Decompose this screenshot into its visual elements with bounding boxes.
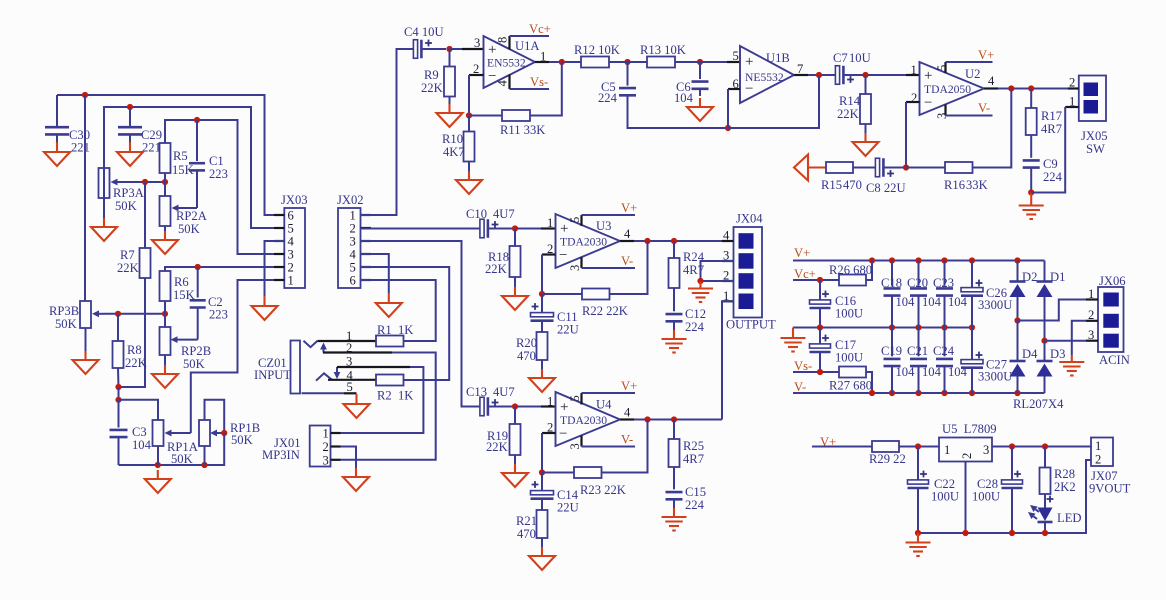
pin 5 rail V+ [582, 201, 638, 226]
svg-text:D2: D2 [1022, 270, 1037, 284]
svg-text:5: 5 [568, 217, 582, 223]
svg-text:50K: 50K [231, 433, 253, 447]
junction [201, 462, 207, 468]
svg-text:R5: R5 [173, 149, 188, 163]
capacitor C12 [666, 288, 707, 334]
jack switch arrow pin 2 [320, 343, 327, 353]
svg-text:R11 33K: R11 33K [500, 123, 545, 137]
LED [1038, 494, 1082, 533]
svg-text:22K: 22K [421, 81, 443, 95]
pin 3 rail V- [582, 254, 636, 268]
wire net top to JX03 pin 6 [57, 95, 284, 215]
resistor R11 feedback [469, 62, 562, 137]
svg-text:1: 1 [944, 443, 950, 457]
junction [539, 291, 545, 297]
svg-text:10U: 10U [849, 51, 871, 65]
capacitor C22 [908, 447, 960, 534]
svg-text:100U: 100U [835, 351, 863, 365]
junction [1008, 85, 1014, 91]
junction [915, 390, 921, 396]
wire net 2 to JX03 pin 5 [104, 107, 284, 228]
svg-text:4: 4 [288, 235, 295, 249]
net label V+ [820, 435, 836, 449]
svg-text:TDA2030: TDA2030 [560, 414, 607, 427]
capacitor C6 [674, 62, 709, 105]
capacitor C17 [810, 328, 864, 373]
svg-text:+: + [745, 54, 753, 70]
ground [117, 142, 143, 166]
svg-text:223: 223 [209, 308, 228, 322]
svg-text:R2 1K: R2 1K [377, 389, 413, 403]
svg-text:3: 3 [568, 265, 582, 271]
ground [853, 124, 879, 156]
junction [624, 59, 630, 65]
wire RP1A wiper to JX03 pin 1 [191, 280, 284, 433]
wire RP1B bottom [204, 446, 206, 465]
svg-text:+: + [924, 68, 932, 84]
svg-text:4U7: 4U7 [493, 207, 515, 221]
resistor R8 [113, 314, 147, 387]
connector JX02 [337, 193, 364, 288]
resistor R21 [516, 510, 548, 541]
junction [969, 390, 975, 396]
svg-text:50K: 50K [171, 452, 193, 466]
junction [155, 462, 161, 468]
wire JX04 pin 2 stub [701, 280, 734, 282]
wire bottom rail of input pots [119, 433, 225, 465]
svg-text:C7: C7 [833, 51, 848, 65]
ground [252, 296, 278, 320]
wire jack pin 3 to JX01 pin 1 [337, 367, 423, 433]
svg-text:6: 6 [350, 274, 356, 288]
junction [1009, 443, 1015, 449]
svg-text:U1B: U1B [766, 51, 790, 65]
svg-text:1: 1 [288, 274, 294, 288]
capacitor C27 [961, 328, 1012, 394]
svg-text:1: 1 [547, 395, 553, 409]
label RL207X4 [1013, 397, 1064, 411]
capacitor C4 [404, 25, 446, 58]
junction [115, 397, 121, 403]
wire JX02 pin 4 to ground [361, 254, 389, 293]
wire U1B pin 6 feedback [728, 89, 740, 128]
svg-text:RP3A: RP3A [113, 186, 144, 200]
svg-text:104: 104 [948, 295, 968, 309]
svg-text:C10: C10 [466, 207, 487, 221]
resistor R6 [160, 271, 195, 302]
ground [1019, 193, 1044, 220]
resistor R27 [829, 367, 872, 394]
resistor R13 [640, 43, 686, 68]
svg-text:50K: 50K [115, 199, 137, 213]
pin 8 rail Vc+ [510, 22, 551, 50]
wire jack pin 4 to R2 [328, 379, 376, 381]
potentiometer RP3A [99, 168, 144, 213]
junction [1014, 257, 1020, 263]
pin 3 rail V- [582, 433, 636, 447]
wire junction row 2 [104, 313, 165, 315]
pin stubs JX04 [722, 241, 734, 301]
LED light arrows [1028, 505, 1039, 519]
svg-text:LED: LED [1057, 511, 1081, 525]
svg-text:R20: R20 [516, 336, 537, 350]
jack switch arrow pin 4 [334, 367, 341, 379]
connector JX03 [281, 193, 308, 288]
ground [343, 468, 369, 491]
svg-text:R23 22K: R23 22K [580, 483, 626, 497]
wire U5 pin 2 [965, 462, 967, 534]
junction [869, 257, 875, 263]
svg-text:R25: R25 [683, 439, 704, 453]
pin 5 rail V+ [582, 379, 638, 405]
svg-text:R29 22: R29 22 [869, 452, 906, 466]
svg-text:3: 3 [288, 248, 294, 262]
junction [915, 257, 921, 263]
svg-text:R28: R28 [1054, 467, 1075, 481]
svg-text:R22 22K: R22 22K [582, 304, 628, 318]
svg-text:2K2: 2K2 [1054, 480, 1076, 494]
svg-text:2: 2 [960, 453, 974, 459]
svg-text:C4 10U: C4 10U [404, 25, 444, 39]
svg-text:V+: V+ [978, 48, 994, 62]
resistor R17 [1026, 89, 1062, 137]
svg-text:−: − [559, 426, 567, 442]
resistor R14 [837, 75, 871, 124]
svg-text:−: − [924, 95, 932, 111]
svg-text:Vc+: Vc+ [794, 267, 816, 281]
ground [502, 277, 528, 310]
connector CZ01 INPUT jack [254, 329, 354, 394]
svg-text:C18: C18 [881, 276, 902, 290]
wire U1A pin 2 [469, 75, 484, 116]
svg-text:224: 224 [685, 320, 705, 334]
svg-text:2: 2 [323, 440, 329, 454]
svg-text:224: 224 [1043, 170, 1063, 184]
junction [1028, 85, 1034, 91]
wire jack pin 5 to ground [302, 392, 357, 394]
svg-text:R17: R17 [1041, 109, 1062, 123]
capacitor C1 [181, 120, 228, 208]
junction [889, 324, 895, 330]
svg-text:22K: 22K [485, 262, 507, 276]
diode D1 [1037, 261, 1066, 341]
wire U4 output [620, 418, 722, 420]
wire JX04 pin 1 to U4 output [722, 301, 734, 419]
svg-text:33K: 33K [966, 178, 988, 192]
svg-text:C23: C23 [933, 276, 954, 290]
svg-text:221: 221 [142, 141, 161, 155]
svg-text:−: − [559, 248, 567, 264]
svg-text:5: 5 [350, 261, 356, 275]
potentiometer RP1B [199, 420, 260, 447]
svg-text:1: 1 [323, 427, 329, 441]
junction [1042, 443, 1048, 449]
svg-text:50K: 50K [183, 357, 205, 371]
connector JX01 MP3IN [262, 426, 331, 468]
wire jack pin 2 to JX01 pin 3 [323, 353, 436, 460]
junction [466, 112, 472, 118]
svg-text:4: 4 [496, 80, 510, 87]
wire jack pin 1 to R1 [318, 340, 377, 342]
svg-text:1: 1 [547, 216, 553, 230]
junction [512, 403, 518, 409]
wire D2 node to JX06 pin 1 [1018, 300, 1087, 321]
svg-text:C8 22U: C8 22U [866, 181, 906, 195]
junction [512, 225, 518, 231]
capacitor C7 [833, 51, 906, 84]
resistor R18 [485, 229, 521, 278]
ground [687, 98, 713, 121]
svg-text:224: 224 [598, 91, 618, 105]
svg-text:RL207X4: RL207X4 [1013, 397, 1064, 411]
capacitor C9 [1023, 135, 1063, 193]
junction [221, 430, 227, 436]
ground [502, 455, 528, 487]
jack tip contact [304, 341, 318, 347]
resistor R23 feedback [542, 420, 648, 498]
wire junction row 1 [120, 181, 165, 183]
wire JX02 pin 2 to C10 [361, 228, 481, 230]
wire R13 to U1B pin 5 [675, 61, 740, 63]
junction [915, 530, 921, 536]
svg-text:224: 224 [685, 498, 705, 512]
junction [697, 278, 703, 284]
svg-text:V-: V- [978, 101, 990, 115]
net label Vc+ [794, 267, 816, 281]
junction [817, 369, 823, 375]
svg-text:U5 L7809: U5 L7809 [942, 422, 997, 436]
ground [344, 394, 370, 418]
resistor R5 [160, 143, 194, 177]
jack ring contact [316, 373, 332, 380]
junction [115, 311, 121, 317]
svg-text:R8: R8 [127, 343, 142, 357]
capacitor C19 [881, 328, 915, 394]
wire RP1A bottom [157, 446, 159, 465]
svg-text:RP2A: RP2A [176, 209, 207, 223]
wire JX02 pin 6 to R1 [361, 280, 436, 341]
connector JX05 SW [1069, 76, 1108, 157]
svg-text:1: 1 [911, 63, 917, 77]
resistor R16 [906, 89, 1011, 193]
svg-text:JX02: JX02 [337, 193, 364, 207]
svg-text:RP3B: RP3B [49, 304, 79, 318]
op-amp U3 [547, 214, 631, 271]
wire JX03 pin2 net [165, 267, 284, 271]
junction [115, 384, 121, 390]
svg-text:221: 221 [71, 141, 90, 155]
svg-text:U3: U3 [596, 219, 611, 233]
svg-text:C20: C20 [907, 276, 928, 290]
svg-text:22K: 22K [125, 356, 147, 370]
junction [142, 179, 148, 185]
svg-text:4: 4 [350, 248, 357, 262]
svg-text:R6: R6 [174, 275, 189, 289]
junction [82, 92, 88, 98]
svg-text:V+: V+ [621, 379, 637, 393]
resistor R20 [516, 332, 548, 363]
svg-text:22K: 22K [486, 440, 508, 454]
svg-text:3300U: 3300U [978, 370, 1012, 384]
svg-text:C21: C21 [907, 344, 928, 358]
ground [906, 533, 931, 556]
svg-text:223: 223 [209, 167, 228, 181]
svg-text:470: 470 [843, 178, 862, 192]
ground [529, 360, 555, 392]
connector JX06 ACIN [1088, 274, 1130, 367]
wire U1B output [794, 74, 835, 76]
wire JX04 pin 3 to ground node [701, 261, 734, 281]
junction [816, 72, 822, 78]
pin stubs JX03 [274, 215, 284, 280]
junction [817, 324, 823, 330]
svg-text:R13 10K: R13 10K [640, 43, 686, 57]
capacitor C5 [598, 62, 728, 128]
capacitor C29 [118, 107, 162, 155]
svg-text:U4: U4 [596, 398, 612, 412]
wire U4 pin 2 [542, 433, 556, 473]
resistor R10 [442, 116, 475, 162]
junction [195, 264, 201, 270]
capacitor C28 [972, 447, 1023, 534]
junction [817, 277, 823, 283]
capacitor C8 [853, 158, 906, 195]
capacitor C21 [907, 328, 942, 394]
svg-text:4R7: 4R7 [1041, 122, 1062, 136]
svg-text:OUTPUT: OUTPUT [726, 318, 776, 332]
junction [915, 443, 921, 449]
wire U5 output [992, 446, 1091, 448]
pin 5 rail V+ [946, 48, 995, 73]
svg-text:5: 5 [733, 49, 739, 63]
junction [194, 117, 200, 123]
junction [1028, 189, 1034, 195]
resistor R22 feedback [542, 241, 648, 318]
junction [862, 72, 868, 78]
ground [376, 293, 402, 317]
pin 3 rail V- [946, 101, 993, 116]
pin stubs JX02 [361, 215, 372, 280]
junction [725, 125, 731, 131]
wire bottom rail to JX07 pin 2 [918, 460, 1091, 533]
wire V- rail [793, 392, 1045, 394]
svg-text:4: 4 [988, 74, 995, 88]
svg-text:104: 104 [674, 91, 694, 105]
junction [162, 311, 168, 317]
wire 0V mid rail [793, 327, 972, 329]
wire D1 node to JX06 pin 3 [1045, 340, 1087, 342]
wire R8 node to input bus [118, 387, 120, 400]
svg-text:2: 2 [288, 261, 294, 275]
svg-text:V+: V+ [794, 246, 810, 260]
svg-text:1: 1 [1095, 439, 1101, 453]
junction [539, 469, 545, 475]
junction [969, 324, 975, 330]
junction [889, 257, 895, 263]
svg-text:C12: C12 [685, 307, 706, 321]
svg-text:22U: 22U [557, 501, 579, 515]
wire to U3 pin 1 [541, 227, 556, 229]
junction [962, 530, 968, 536]
capacitor C10 [466, 207, 541, 238]
svg-text:4: 4 [624, 406, 631, 420]
wire RP1B top loop [205, 400, 225, 433]
svg-text:JX05: JX05 [1081, 129, 1108, 143]
svg-text:INPUT: INPUT [254, 368, 291, 382]
wire Vc+ rail [793, 279, 839, 281]
svg-text:JX06: JX06 [1099, 274, 1126, 288]
junction [869, 390, 875, 396]
svg-text:C13: C13 [466, 385, 487, 399]
ground [456, 162, 482, 195]
svg-text:4U7: 4U7 [493, 385, 515, 399]
connector JX07 9VOUT [1089, 438, 1131, 496]
wire to U2 pin 1 [906, 74, 920, 76]
svg-text:D1: D1 [1050, 270, 1065, 284]
resistor R12 [574, 43, 620, 68]
wire U1A output [535, 61, 581, 63]
diode D4 [1010, 321, 1039, 394]
svg-text:C15: C15 [685, 485, 706, 499]
wire R29 to U5 [899, 446, 939, 448]
op-amp U4 [547, 392, 631, 450]
resistor R9 [421, 49, 455, 97]
wire feedback to output [728, 75, 819, 128]
svg-text:C3: C3 [132, 425, 147, 439]
potentiometer RP2A [160, 173, 207, 236]
wire R12 to R13 [609, 61, 647, 63]
capacitor C20 [907, 261, 942, 328]
wire V+ to R29 [812, 446, 872, 448]
capacitor C14 [531, 473, 579, 515]
potentiometer RP2B [160, 301, 212, 371]
svg-text:R7: R7 [120, 248, 135, 262]
wire U2 output [984, 87, 1079, 89]
wire U3 output [620, 240, 733, 242]
potentiometer RP1A [153, 420, 198, 466]
svg-text:ACIN: ACIN [1099, 353, 1130, 367]
wire U3 pin 2 [542, 255, 556, 295]
svg-text:SW: SW [1086, 142, 1105, 156]
svg-text:V+: V+ [621, 201, 637, 215]
junction [915, 324, 921, 330]
resistor R19 [486, 407, 521, 456]
svg-text:5: 5 [935, 65, 949, 71]
capacitor C30 [45, 95, 90, 155]
svg-text:V-: V- [621, 254, 633, 268]
junction [127, 104, 133, 110]
ground [73, 328, 99, 374]
svg-text:Vs-: Vs- [530, 75, 548, 89]
junction [1014, 317, 1020, 323]
svg-text:3300U: 3300U [978, 298, 1012, 312]
svg-text:4: 4 [624, 227, 631, 241]
svg-text:R10: R10 [442, 132, 463, 146]
svg-text:V-: V- [794, 380, 806, 394]
svg-text:U2: U2 [965, 67, 980, 81]
resistor R15 [821, 162, 862, 192]
junction [446, 46, 452, 52]
connector JX04 OUTPUT [723, 212, 776, 332]
svg-text:22K: 22K [837, 107, 859, 121]
svg-text:4K7: 4K7 [443, 145, 465, 159]
svg-text:Vs-: Vs- [794, 359, 812, 373]
wire Vs- rail [793, 371, 839, 373]
capacitor C16 [810, 280, 864, 328]
junction [969, 257, 975, 263]
ground [662, 330, 687, 353]
svg-text:TDA2030: TDA2030 [560, 236, 607, 249]
